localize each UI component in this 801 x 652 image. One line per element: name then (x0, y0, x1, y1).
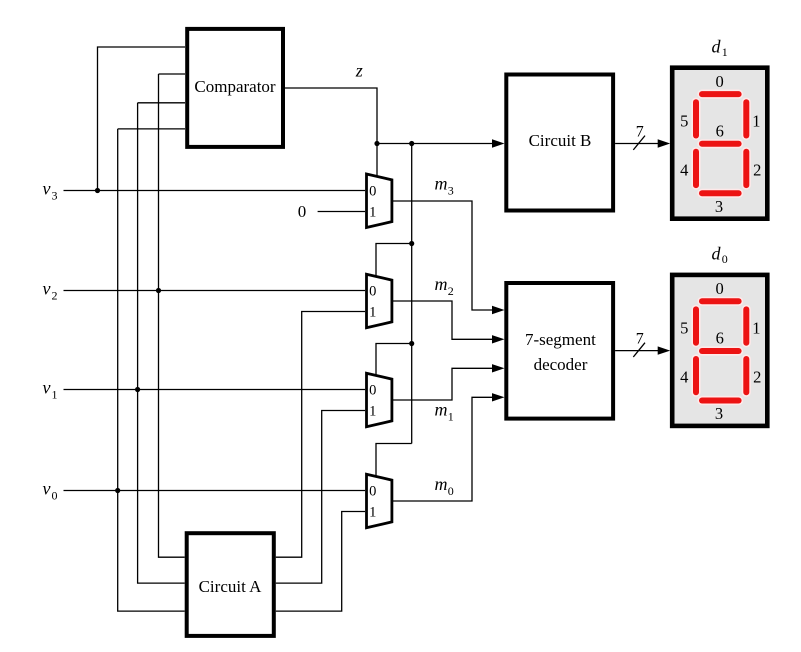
svg-text:1: 1 (369, 504, 376, 520)
wire Circuit A out a1 to mux3 (276, 411, 365, 584)
wire select to mux4 (376, 444, 412, 478)
wire z from comparator (285, 88, 377, 144)
wire Circuit B to display d1 (615, 143, 659, 145)
svg-text:1: 1 (752, 111, 760, 130)
svg-text:2: 2 (52, 289, 58, 303)
display d1 segment 2 (742, 147, 751, 190)
svg-text:1: 1 (722, 45, 728, 59)
svg-text:3: 3 (52, 189, 58, 203)
wire m3 (392, 201, 493, 310)
svg-text:0: 0 (298, 202, 307, 221)
svg-text:m: m (435, 174, 448, 194)
junction dot z-bus (409, 141, 414, 146)
display d0 box (672, 275, 767, 426)
svg-text:1: 1 (448, 410, 454, 424)
svg-text:5: 5 (680, 111, 688, 130)
multiplexer mux1 (m3) (367, 174, 392, 227)
svg-text:Circuit A: Circuit A (199, 577, 263, 596)
svg-text:v: v (43, 479, 51, 499)
wire select to mux2 (376, 244, 412, 278)
display d1 segment 6 (697, 139, 743, 148)
junction dot v2 (156, 288, 161, 293)
svg-text:m: m (435, 274, 448, 294)
svg-text:1: 1 (752, 319, 760, 338)
display d0 segment 0 (697, 297, 743, 306)
wire v0 horizontal (64, 490, 366, 492)
wire m2 (392, 301, 493, 339)
svg-text:m: m (435, 400, 448, 420)
junction dot select mux2 (409, 241, 414, 246)
display d1 segment 0 (697, 90, 743, 99)
wire v2 horizontal (64, 290, 366, 292)
display d0 segment 2 (742, 354, 751, 397)
svg-text:0: 0 (369, 382, 376, 398)
svg-text:7: 7 (636, 331, 644, 348)
display d1 segment 1 (742, 98, 751, 141)
wire select to mux3 (376, 344, 412, 377)
wire v2 vertical (comparator + Circuit A) (159, 74, 186, 557)
bus slash 7 (Circuit B output) (633, 136, 645, 150)
svg-text:1: 1 (369, 403, 376, 419)
svg-text:4: 4 (680, 368, 688, 387)
comparator box (187, 29, 283, 147)
arrow into decoder input m0 (492, 393, 505, 401)
svg-text:0: 0 (52, 489, 58, 503)
Circuit B box (506, 75, 613, 211)
wire Circuit A out a2 to mux2 (276, 312, 365, 558)
svg-text:v: v (43, 378, 51, 398)
display d1 box (672, 68, 767, 219)
svg-text:decoder: decoder (534, 355, 588, 374)
wire v3 horizontal (64, 190, 366, 192)
svg-text:v: v (43, 279, 51, 299)
wire constant 0 stub (318, 211, 365, 213)
display d1 segment 5 (691, 98, 700, 141)
arrow into decoder input m1 (492, 364, 505, 372)
svg-text:0: 0 (369, 483, 376, 499)
arrow into display d1 (658, 139, 671, 147)
junction dot select mux3 (409, 341, 414, 346)
display d0 segment 5 (691, 305, 700, 348)
bus slash 7 (decoder output) (633, 343, 645, 357)
display d0 segment 4 (691, 354, 700, 397)
wire v0 vertical (comparator + Circuit A) (118, 129, 185, 611)
svg-text:d: d (712, 36, 722, 56)
svg-text:6: 6 (716, 329, 724, 348)
wire select to mux1 (376, 144, 378, 178)
svg-text:1: 1 (369, 304, 376, 320)
svg-text:2: 2 (753, 160, 761, 179)
svg-text:5: 5 (680, 319, 688, 338)
junction dot v3 (95, 188, 100, 193)
svg-text:1: 1 (369, 204, 376, 220)
arrow into Circuit B (492, 139, 505, 147)
svg-text:0: 0 (715, 279, 723, 298)
junction dot v0 (115, 488, 120, 493)
svg-text:0: 0 (369, 183, 376, 199)
wire v1 horizontal (64, 389, 366, 391)
wire Circuit A out a0 to mux4 (276, 512, 365, 612)
multiplexer mux2 (m2) (367, 274, 392, 327)
svg-text:Comparator: Comparator (194, 77, 276, 96)
svg-text:4: 4 (680, 160, 688, 179)
arrow into decoder input m3 (492, 306, 505, 314)
svg-text:0: 0 (369, 283, 376, 299)
junction dot z-mux1 (374, 141, 379, 146)
svg-text:6: 6 (716, 121, 724, 140)
display d0 segment 6 (697, 346, 743, 355)
svg-text:0: 0 (722, 252, 728, 266)
svg-text:7: 7 (636, 124, 644, 141)
multiplexer mux3 (m1) (367, 373, 392, 426)
svg-text:2: 2 (753, 368, 761, 387)
svg-text:7-segment: 7-segment (525, 330, 596, 349)
wire v3 vertical to comparator (98, 47, 186, 191)
Circuit A box (187, 533, 274, 636)
svg-text:1: 1 (52, 388, 58, 402)
wire decoder to display d0 (615, 350, 659, 352)
wire select bus to Circuit B (377, 143, 493, 145)
display d1 segment 4 (691, 147, 700, 190)
svg-text:3: 3 (448, 184, 454, 198)
display d0 segment 3 (697, 396, 743, 405)
arrow into display d0 (658, 346, 671, 354)
svg-text:0: 0 (448, 484, 454, 498)
wire select vertical (411, 144, 413, 444)
svg-text:3: 3 (715, 197, 723, 216)
svg-text:0: 0 (715, 72, 723, 91)
svg-text:v: v (43, 179, 51, 199)
display d0 segment 1 (742, 305, 751, 348)
svg-text:Circuit B: Circuit B (529, 131, 592, 150)
svg-text:z: z (355, 60, 363, 80)
wire m0 (392, 397, 493, 501)
wire m1 (392, 368, 493, 400)
wire v1 vertical (comparator + Circuit A) (138, 103, 185, 583)
display d1 segment 3 (697, 189, 743, 198)
junction dot v1 (135, 387, 140, 392)
arrow into decoder input m2 (492, 335, 505, 343)
svg-text:m: m (435, 474, 448, 494)
svg-text:3: 3 (715, 404, 723, 423)
multiplexer mux4 (m0) (367, 474, 392, 527)
svg-text:2: 2 (448, 284, 454, 298)
7-segment decoder box (506, 283, 613, 419)
svg-text:d: d (712, 244, 722, 264)
